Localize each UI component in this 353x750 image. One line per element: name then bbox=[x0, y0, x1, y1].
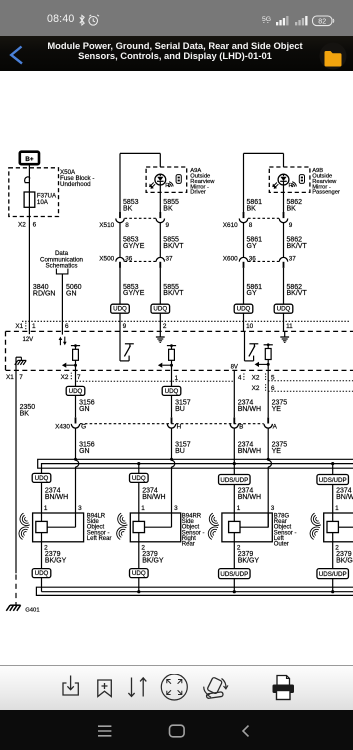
wire mirror supply top bar bbox=[120, 153, 160, 212]
connector X430 bbox=[55, 417, 278, 430]
label wire 5853 GY/YE lower bbox=[123, 284, 145, 297]
switch under pin 9 bbox=[120, 331, 134, 361]
label wire 5862 BK bbox=[287, 199, 303, 212]
UDQ label on 3156 GN bbox=[66, 386, 85, 417]
svg-text:36: 36 bbox=[125, 256, 133, 263]
connector X2 pin 7 exit bbox=[61, 373, 81, 381]
pin 1 exit label bbox=[175, 375, 179, 382]
svg-text:BK: BK bbox=[123, 205, 133, 212]
svg-text:X610: X610 bbox=[223, 222, 238, 229]
svg-text:X2: X2 bbox=[61, 374, 69, 381]
label sensor 4 name bbox=[0, 0, 1, 1]
svg-text:4: 4 bbox=[238, 375, 242, 382]
svg-text:Schematics: Schematics bbox=[46, 262, 78, 269]
svg-text:G401: G401 bbox=[25, 608, 39, 614]
svg-text:12V: 12V bbox=[23, 337, 34, 343]
svg-text:X510: X510 bbox=[99, 222, 114, 229]
svg-text:1: 1 bbox=[175, 375, 179, 382]
svg-text:1: 1 bbox=[44, 505, 48, 512]
svg-text:X1: X1 bbox=[15, 323, 23, 330]
svg-text:6: 6 bbox=[65, 323, 69, 330]
label 2374 label s1 bbox=[45, 487, 68, 500]
status bar bbox=[0, 0, 353, 36]
android nav bar bbox=[0, 710, 353, 750]
svg-text:UDQ: UDQ bbox=[132, 475, 146, 482]
svg-text:B: B bbox=[239, 424, 243, 431]
UD label box below sensor 2 bbox=[130, 569, 149, 592]
B+ battery feed box bbox=[20, 152, 39, 165]
svg-text:BN/WH: BN/WH bbox=[45, 494, 68, 501]
svg-text:UDQ: UDQ bbox=[165, 388, 179, 395]
svg-text:UDQ: UDQ bbox=[153, 306, 167, 313]
svg-text:UDQ: UDQ bbox=[237, 306, 251, 313]
svg-text:YE: YE bbox=[272, 406, 282, 413]
pin 2 and wire 2379 BK/GY sensor 4 bbox=[333, 542, 340, 569]
resistor under X2 pin 7 bbox=[62, 344, 80, 370]
bidirectional signal arrows under pin 6 bbox=[59, 331, 67, 345]
svg-text:37: 37 bbox=[289, 256, 297, 263]
svg-text:UDS/UDP: UDS/UDP bbox=[319, 477, 347, 484]
outside rearview mirror A9B bbox=[269, 167, 310, 212]
label F37UA 10A bbox=[37, 193, 57, 206]
terminal hook inside fuse block bbox=[25, 177, 30, 183]
connector X2 pins 4/5 row bbox=[238, 373, 353, 381]
side/rear object sensor 1 box bbox=[33, 505, 84, 542]
svg-text:BK/VT: BK/VT bbox=[287, 243, 308, 250]
label wire 3840 RD/GN bbox=[33, 284, 56, 298]
svg-text:3: 3 bbox=[174, 505, 178, 512]
connector X1 pin row (module top) bbox=[15, 321, 349, 330]
label wire 3156 GN label bbox=[79, 400, 95, 413]
svg-text:H: H bbox=[177, 424, 182, 431]
pin 2 and wire 2379 BK/GY sensor 1 bbox=[42, 542, 49, 569]
label 2374 label s3 bbox=[238, 487, 261, 500]
svg-text:8V: 8V bbox=[231, 364, 238, 370]
svg-text:9: 9 bbox=[123, 323, 127, 330]
svg-text:X2: X2 bbox=[18, 221, 26, 228]
svg-text:3: 3 bbox=[78, 505, 82, 512]
svg-text:X1: X1 bbox=[6, 374, 14, 381]
label 2374 label s2 bbox=[142, 487, 165, 500]
svg-text:1: 1 bbox=[32, 323, 36, 330]
fuse block X50A dashed outline bbox=[9, 168, 59, 217]
svg-text:X430: X430 bbox=[55, 424, 70, 431]
svg-text:UDQ: UDQ bbox=[69, 388, 83, 395]
svg-text:3: 3 bbox=[271, 505, 275, 512]
svg-text:6: 6 bbox=[33, 221, 37, 228]
svg-text:8: 8 bbox=[249, 222, 253, 229]
pin 2 and wire 2379 BK/GY sensor 2 bbox=[139, 542, 146, 569]
svg-text:BN/WH: BN/WH bbox=[238, 494, 261, 501]
svg-text:RD/GN: RD/GN bbox=[33, 290, 56, 297]
svg-text:BN/WH: BN/WH bbox=[238, 448, 261, 455]
label wire 5861 GY bbox=[247, 237, 263, 250]
connector X610 bbox=[223, 212, 293, 229]
label wire 5060 GN bbox=[66, 284, 82, 298]
svg-text:BK: BK bbox=[163, 205, 173, 212]
switch under pin 10 bbox=[245, 331, 259, 361]
svg-text:BK/GY: BK/GY bbox=[238, 558, 260, 565]
label wire 3157 BU label bbox=[175, 400, 191, 413]
label wire 3156 GN lower label bbox=[79, 441, 95, 454]
svg-text:B+: B+ bbox=[25, 156, 34, 163]
svg-text:37: 37 bbox=[166, 256, 174, 263]
svg-text:UDQ: UDQ bbox=[277, 306, 291, 313]
svg-text:UDS/UDP: UDS/UDP bbox=[220, 477, 248, 484]
svg-text:BN/WH: BN/WH bbox=[336, 494, 353, 501]
UD label box below sensor 1 bbox=[32, 569, 51, 592]
svg-text:BK/GY: BK/GY bbox=[142, 558, 164, 565]
label wire 5862 BK/VT lower bbox=[287, 284, 308, 297]
serial data bus (upper) bbox=[38, 459, 353, 473]
svg-text:BN/WH: BN/WH bbox=[238, 406, 261, 413]
label wire 5855 BK/VT lower bbox=[163, 284, 184, 297]
svg-text:BN/WH: BN/WH bbox=[142, 494, 165, 501]
svg-text:GY/YE: GY/YE bbox=[123, 243, 145, 250]
svg-text:1: 1 bbox=[237, 505, 241, 512]
svg-text:7: 7 bbox=[77, 374, 81, 381]
connector X2 pin 6 row bbox=[252, 384, 353, 392]
label wire 5855 BK bbox=[163, 199, 179, 212]
label wire 2375 YE label bbox=[272, 400, 288, 413]
label wire 5853 BK bbox=[123, 199, 139, 212]
UDQ data link label at x=160.3 bbox=[151, 304, 170, 331]
junction dots on lower bus bbox=[137, 590, 334, 593]
svg-text:BK/VT: BK/VT bbox=[163, 243, 184, 250]
wire 2375 YE (upper segment) bbox=[267, 370, 269, 417]
svg-text:8: 8 bbox=[125, 222, 129, 229]
label wire 3157 BU lower label bbox=[175, 441, 191, 454]
svg-text:1: 1 bbox=[141, 505, 145, 512]
resistor near 8V output bbox=[255, 343, 273, 369]
connector X510 bbox=[99, 212, 169, 229]
label sensor 2 name bbox=[182, 513, 205, 547]
side/rear object sensor 2 box bbox=[130, 505, 180, 542]
svg-text:Passenger: Passenger bbox=[312, 190, 340, 196]
svg-text:UDS/UDP: UDS/UDP bbox=[220, 571, 248, 578]
svg-text:10A: 10A bbox=[37, 199, 49, 206]
svg-text:GY: GY bbox=[247, 290, 257, 297]
svg-text:BK/GY: BK/GY bbox=[45, 558, 67, 565]
radar waves sensor 1 bbox=[17, 513, 30, 539]
resistor feeding pin 1 output bbox=[158, 344, 176, 370]
svg-text:A: A bbox=[273, 424, 278, 431]
label 2374 label s4 bbox=[336, 487, 353, 500]
UD label box above sensor 4 bbox=[317, 475, 349, 514]
svg-text:BU: BU bbox=[175, 448, 185, 455]
label wire 2374 BN/WH label bbox=[238, 400, 261, 413]
label X50A Fuse Block - Underhood bbox=[60, 169, 94, 188]
svg-text:UDQ: UDQ bbox=[113, 306, 127, 313]
label wire 5862 BK/VT bbox=[287, 237, 308, 250]
svg-text:GY/YE: GY/YE bbox=[123, 290, 145, 297]
ground symbol under pin 11 bbox=[280, 331, 289, 342]
UDQ data link label at x=120.0 bbox=[111, 304, 130, 331]
internal chassis ground (module) bbox=[15, 357, 26, 370]
wire mirror supply top bar bbox=[244, 153, 284, 212]
svg-text:YE: YE bbox=[272, 448, 282, 455]
label wire 2374 BN/WH lower label bbox=[238, 441, 261, 454]
svg-text:7: 7 bbox=[19, 374, 23, 381]
svg-text:X500: X500 bbox=[99, 256, 114, 263]
serial data bus (lower) bbox=[36, 587, 353, 595]
svg-text:9: 9 bbox=[166, 222, 170, 229]
UDQ data link label at x=243.5 bbox=[234, 304, 253, 331]
svg-text:BK: BK bbox=[287, 205, 297, 212]
node 12V bbox=[23, 331, 34, 343]
ground G401 bbox=[6, 602, 39, 614]
ground symbol under pin 2 bbox=[156, 331, 165, 342]
svg-text:BU: BU bbox=[175, 406, 185, 413]
side/rear object sensor 4 box bbox=[324, 505, 353, 542]
svg-text:1: 1 bbox=[335, 505, 339, 512]
svg-text:X600: X600 bbox=[223, 256, 238, 263]
connector X2 pin 6 under fuse block bbox=[18, 221, 37, 228]
wire 2350 BK from X1 pin 7 bbox=[15, 370, 17, 600]
label A9A label bbox=[190, 168, 215, 195]
svg-text:X2: X2 bbox=[252, 375, 260, 382]
pin 2 and wire 2379 BK/GY sensor 3 bbox=[234, 542, 241, 569]
connector X1 pin 7 exit bbox=[6, 374, 23, 381]
svg-text:BK/GY: BK/GY bbox=[336, 558, 353, 565]
svg-text:9: 9 bbox=[289, 222, 293, 229]
label 2379 label s2 bbox=[142, 551, 164, 564]
connector X600 bbox=[223, 256, 296, 268]
UD label box above sensor 1 bbox=[32, 473, 51, 513]
label wire 5861 BK bbox=[247, 199, 263, 212]
svg-text:G: G bbox=[81, 424, 86, 431]
svg-text:UDQ: UDQ bbox=[35, 475, 49, 482]
wire 3157 BU (upper segment) bbox=[171, 370, 173, 386]
svg-text:BK/VT: BK/VT bbox=[163, 290, 184, 297]
radar waves sensor 2 bbox=[114, 513, 127, 539]
svg-text:X2: X2 bbox=[252, 385, 260, 392]
inline connector dotted line below module bbox=[77, 380, 235, 382]
side/rear object sensor 3 box bbox=[222, 505, 275, 542]
svg-text:UDS/UDP: UDS/UDP bbox=[319, 571, 347, 578]
svg-text:Underhood: Underhood bbox=[60, 181, 91, 188]
svg-text:11: 11 bbox=[286, 323, 293, 330]
label wire 5853 GY/YE bbox=[123, 237, 145, 250]
label A9B label bbox=[312, 168, 340, 195]
outside rearview mirror A9A bbox=[146, 167, 187, 212]
wire segments between X510 and X500 bbox=[120, 223, 284, 258]
svg-text:GN: GN bbox=[66, 290, 77, 297]
svg-text:Outer: Outer bbox=[274, 542, 289, 548]
label wire 2350 BK bbox=[20, 404, 36, 418]
radar waves sensor 3 bbox=[206, 513, 219, 539]
svg-text:Driver: Driver bbox=[190, 190, 206, 196]
svg-text:Rear: Rear bbox=[182, 542, 195, 548]
UD label box above sensor 3 bbox=[219, 475, 251, 514]
bottom toolbar bbox=[0, 665, 353, 710]
node 8V bbox=[231, 364, 238, 370]
label wire 5855 BK/VT bbox=[163, 237, 184, 250]
svg-text:GN: GN bbox=[79, 448, 90, 455]
UDQ label on 3157 BU bbox=[162, 386, 181, 417]
node Data Communication Schematics bbox=[40, 250, 84, 274]
svg-text:36: 36 bbox=[249, 256, 257, 263]
svg-text:BK: BK bbox=[20, 410, 30, 417]
wire segments X430 to bus bbox=[76, 428, 269, 464]
svg-text:BK/VT: BK/VT bbox=[287, 290, 308, 297]
svg-text:GN: GN bbox=[79, 406, 90, 413]
label 2379 label s1 bbox=[45, 551, 67, 564]
wire 2374 BN/WH (upper segment) bbox=[233, 370, 235, 417]
wire segments below X500/X600 bbox=[120, 268, 284, 304]
UD label box below sensor 4 bbox=[317, 569, 349, 592]
svg-text:2: 2 bbox=[163, 323, 167, 330]
UD label box above sensor 2 bbox=[130, 473, 149, 513]
label sensor 3 name bbox=[274, 513, 297, 547]
label sensor 1 name bbox=[87, 513, 112, 542]
label 2379 label s3 bbox=[238, 551, 260, 564]
svg-text:UDQ: UDQ bbox=[35, 570, 49, 577]
wire 3156 GN (upper segment) bbox=[75, 370, 77, 386]
bus hop/junctions on upper bus bbox=[74, 458, 334, 528]
UDQ data link label at x=283.5 bbox=[274, 304, 293, 331]
svg-text:GY: GY bbox=[247, 243, 257, 250]
label wire 2375 YE lower label bbox=[272, 441, 288, 454]
module dashed box (body control) bbox=[6, 331, 353, 370]
wire 5060 GN to module pin 6 bbox=[61, 274, 63, 332]
radar waves sensor 4 bbox=[308, 513, 321, 539]
UD label box below sensor 3 bbox=[219, 569, 251, 592]
svg-text:UDQ: UDQ bbox=[132, 570, 146, 577]
connector X500 bbox=[99, 256, 173, 268]
label wire 5861 GY lower bbox=[247, 284, 263, 297]
fuse F37UA 10A bbox=[24, 192, 35, 207]
label 2379 label s4 bbox=[336, 551, 353, 564]
svg-text:Left Rear: Left Rear bbox=[87, 536, 112, 542]
svg-text:BK: BK bbox=[247, 205, 257, 212]
wire 3840 RD/GN from B+ through fuse to module pin 1 bbox=[28, 164, 30, 331]
title bar bbox=[0, 36, 353, 71]
svg-text:10: 10 bbox=[246, 323, 254, 330]
